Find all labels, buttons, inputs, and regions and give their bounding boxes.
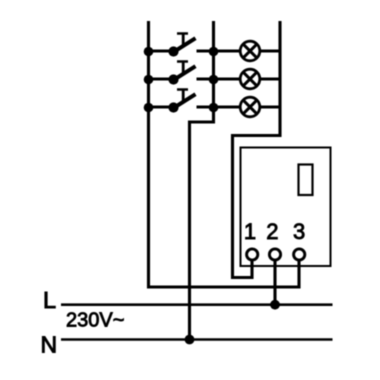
svg-text:L: L xyxy=(43,287,56,313)
svg-text:1: 1 xyxy=(244,219,256,244)
svg-text:230V~: 230V~ xyxy=(66,310,124,332)
svg-text:3: 3 xyxy=(293,219,305,244)
svg-text:N: N xyxy=(41,331,58,357)
svg-text:2: 2 xyxy=(266,219,278,244)
